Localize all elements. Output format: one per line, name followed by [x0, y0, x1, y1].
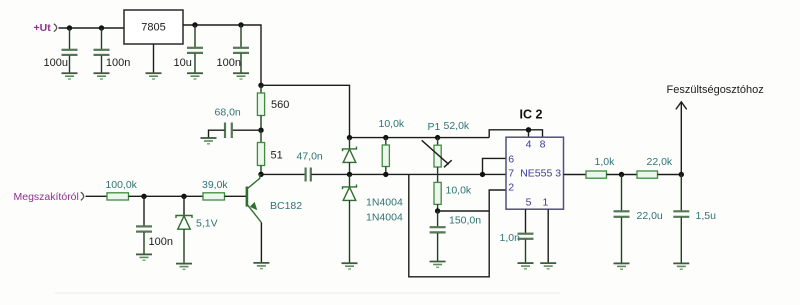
svg-text:BC182: BC182	[270, 200, 302, 212]
node junction R5 bottom	[383, 172, 388, 177]
svg-text:1N4004: 1N4004	[366, 212, 403, 224]
wire rail y137	[350, 137, 490, 139]
node junction 100n base	[141, 194, 146, 199]
svg-text:100,0k: 100,0k	[105, 179, 137, 191]
resistor R4 39,0k	[203, 193, 225, 200]
wire output arrow to divider	[676, 102, 687, 175]
node junction out2	[679, 172, 684, 177]
svg-text:NE555: NE555	[520, 168, 552, 180]
ground under 7805	[146, 73, 162, 79]
svg-text:10,0k: 10,0k	[379, 118, 405, 130]
potentiometer P1 52,0k	[422, 138, 452, 183]
ground under pin1	[540, 263, 556, 269]
svg-text:47,0n: 47,0n	[297, 151, 323, 163]
node junction 560/51	[258, 128, 263, 133]
resistor R3 100,0k	[107, 193, 129, 200]
wire after R8	[658, 174, 682, 176]
node junction out1	[619, 172, 624, 177]
svg-text:100n: 100n	[149, 236, 173, 248]
node junction C4	[238, 22, 243, 27]
svg-text:100u: 100u	[44, 57, 68, 69]
node junction C2	[99, 25, 104, 30]
diode D2 1N4004	[343, 174, 357, 263]
svg-text:560: 560	[271, 99, 289, 111]
resistor R5 10,0k	[382, 138, 389, 175]
wire to base	[225, 195, 246, 197]
resistor R8 22,0k	[637, 171, 658, 178]
ground at 68,0n	[201, 138, 217, 144]
connector +Ut	[54, 24, 57, 32]
wire pin2 loop	[409, 174, 506, 276]
resistor R6 10,0k	[434, 182, 441, 211]
svg-text:6: 6	[508, 153, 514, 165]
wire 7805 ground lead	[153, 44, 155, 73]
wire pin5 lead	[525, 209, 527, 233]
zener diode D3 5,1V	[176, 196, 192, 263]
transistor Q1 BC182	[247, 174, 262, 262]
wire base row	[86, 195, 108, 197]
node junction P1 top	[435, 135, 440, 140]
ground under diodes	[342, 263, 358, 269]
ground under C1	[62, 73, 78, 79]
svg-text:Feszültségosztóhoz: Feszültségosztóhoz	[667, 84, 764, 96]
wire base row mid	[129, 195, 204, 197]
ground under C2	[94, 73, 110, 79]
svg-text:1,5u: 1,5u	[696, 210, 717, 222]
wire junction to pin2 net	[438, 210, 490, 212]
svg-text:1,0n: 1,0n	[500, 232, 521, 244]
capacitor C11 1,5u	[673, 175, 689, 264]
svg-text:3: 3	[555, 168, 561, 180]
svg-text:150,0n: 150,0n	[449, 215, 481, 227]
node junction C3	[192, 22, 197, 27]
diode D1 1N4004	[343, 138, 357, 175]
node junction collector rail top	[258, 83, 263, 88]
node junction diode top	[347, 135, 352, 140]
svg-text:39,0k: 39,0k	[202, 179, 228, 191]
svg-text:+Ut: +Ut	[34, 22, 52, 34]
wire top horizontal to diode column	[261, 85, 350, 137]
op-amp/timer IC 2 NE555 box	[506, 137, 564, 209]
svg-text:5,1V: 5,1V	[196, 218, 218, 230]
scan artifact line	[55, 292, 560, 294]
capacitor C2 100n	[94, 28, 110, 73]
svg-text:IC 2: IC 2	[520, 108, 543, 122]
node junction R5 top	[383, 135, 388, 140]
resistor R2 51	[257, 130, 264, 174]
svg-text:2: 2	[508, 182, 514, 194]
capacitor C4 100n	[233, 25, 249, 73]
svg-text:22,0k: 22,0k	[647, 156, 673, 168]
node junction C1	[67, 25, 72, 30]
regulator U1 7805	[124, 10, 183, 44]
wire pin3 output	[564, 174, 587, 176]
svg-text:7805: 7805	[141, 22, 165, 34]
svg-text:100n: 100n	[106, 57, 130, 69]
resistor R7 1,0k	[586, 171, 607, 178]
wire pin1 lead	[547, 209, 549, 263]
svg-text:8: 8	[540, 139, 546, 151]
node junction pin6/pin7	[480, 172, 485, 177]
svg-text:100n: 100n	[217, 57, 241, 69]
ground under C4	[233, 73, 249, 79]
node junction zener	[181, 194, 186, 199]
capacitor C5 68,0n	[209, 123, 262, 139]
ground under C8	[430, 262, 446, 268]
wire pin6 drop	[483, 158, 507, 174]
ground under C7	[136, 254, 152, 260]
wire net 2-6-7 horizontal	[350, 173, 507, 175]
svg-text:1: 1	[542, 196, 548, 208]
node junction pin4	[526, 127, 531, 132]
svg-text:51: 51	[271, 150, 283, 162]
resistor R1 560	[257, 85, 264, 130]
ground under zener	[176, 264, 192, 270]
ground under C10	[614, 263, 630, 269]
svg-text:22,0u: 22,0u	[637, 210, 663, 222]
svg-text:10u: 10u	[174, 57, 192, 69]
capacitor C1 100u	[62, 28, 78, 73]
wire pin4 stub	[528, 130, 530, 137]
node junction R6/C8	[435, 208, 440, 213]
svg-text:1N4004: 1N4004	[366, 197, 403, 209]
connector Megszakitorol	[81, 192, 84, 200]
node junction between diodes	[347, 172, 352, 177]
svg-text:P1: P1	[428, 121, 441, 133]
svg-text:5: 5	[526, 196, 532, 208]
svg-text:10,0k: 10,0k	[446, 185, 472, 197]
capacitor C3 10u	[187, 25, 203, 73]
capacitor C6 47,0n	[261, 168, 350, 182]
svg-text:Megszakítóról: Megszakítóról	[14, 191, 79, 203]
wire input rail	[59, 27, 125, 29]
wire step up to pins 4/8	[489, 130, 542, 138]
ground under C9	[518, 263, 534, 269]
capacitor C9 1,0n	[518, 234, 534, 263]
capacitor C10 22,0u	[614, 175, 630, 264]
node junction collector	[258, 172, 263, 177]
ground under C3	[187, 73, 203, 79]
svg-text:7: 7	[508, 168, 514, 180]
svg-text:4: 4	[526, 139, 532, 151]
svg-text:68,0n: 68,0n	[215, 107, 241, 119]
capacitor C7 100n base	[136, 196, 152, 254]
ground under emitter	[253, 263, 269, 269]
wire output rail	[183, 25, 261, 85]
svg-text:52,0k: 52,0k	[444, 120, 470, 132]
wire after R7	[607, 174, 638, 176]
capacitor C8 150,0n	[430, 211, 446, 261]
svg-text:1,0k: 1,0k	[595, 156, 616, 168]
ground under C11	[673, 263, 689, 269]
